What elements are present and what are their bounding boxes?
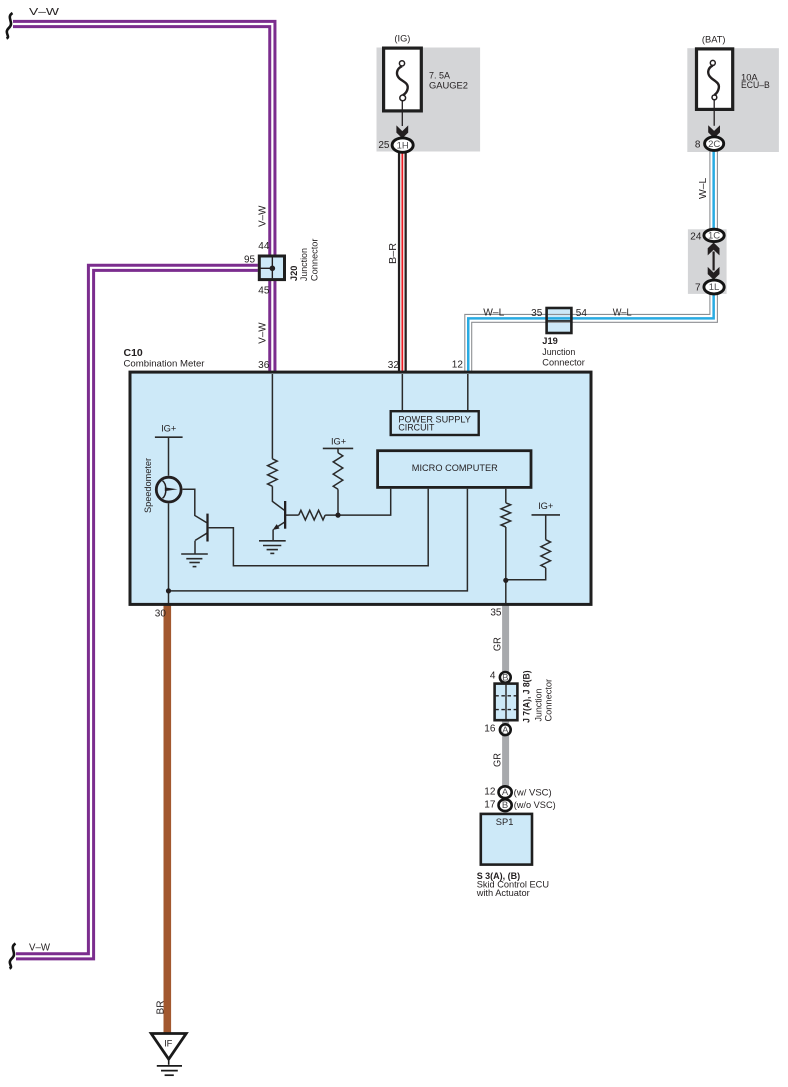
svg-text:Connector: Connector [544,679,554,722]
svg-text:with Actuator: with Actuator [476,888,530,898]
svg-text:1L: 1L [709,282,720,293]
svg-text:44: 44 [258,241,270,252]
svg-text:7: 7 [695,283,701,294]
svg-text:16: 16 [484,724,496,735]
svg-text:Junction: Junction [533,689,543,722]
svg-text:30: 30 [155,609,167,620]
svg-text:4: 4 [490,671,496,682]
svg-text:CIRCUIT: CIRCUIT [398,423,434,433]
svg-text:V–W: V–W [257,322,268,344]
svg-text:1H: 1H [397,140,409,151]
svg-text:IG+: IG+ [538,501,553,511]
svg-text:J19: J19 [542,336,558,346]
svg-text:B: B [502,673,508,684]
svg-text:8: 8 [695,139,701,150]
svg-text:GR: GR [492,637,503,651]
svg-text:32: 32 [388,360,400,371]
svg-text:35: 35 [531,308,543,319]
svg-text:45: 45 [258,286,270,297]
svg-text:IG+: IG+ [161,424,176,434]
svg-text:(BAT): (BAT) [702,35,726,45]
svg-text:Speedometer: Speedometer [143,458,153,513]
svg-text:2C: 2C [708,139,720,150]
svg-text:ECU–B: ECU–B [741,80,770,90]
svg-text:W–L: W–L [698,177,709,199]
svg-text:Combination Meter: Combination Meter [124,358,205,368]
svg-text:V–W: V–W [29,942,51,953]
svg-text:C10: C10 [124,347,143,359]
svg-text:1C: 1C [708,231,720,242]
svg-text:J20: J20 [289,266,299,282]
svg-text:A: A [502,725,509,736]
svg-text:IF: IF [164,1039,173,1049]
svg-text:IG+: IG+ [331,437,346,447]
svg-text:95: 95 [244,254,256,265]
svg-text:12: 12 [452,360,464,371]
svg-text:12: 12 [484,787,496,798]
svg-text:35: 35 [490,608,502,619]
svg-text:W–L: W–L [613,308,632,319]
svg-text:Junction: Junction [299,248,309,281]
svg-text:(w/ VSC): (w/ VSC) [514,787,552,797]
svg-text:GR: GR [492,753,503,767]
svg-text:25: 25 [378,140,390,151]
svg-text:MICRO COMPUTER: MICRO COMPUTER [412,463,498,473]
svg-text:(IG): (IG) [394,34,410,44]
svg-text:V–W: V–W [257,205,268,227]
svg-text:(w/o VSC): (w/o VSC) [514,800,556,810]
svg-text:SP1: SP1 [496,817,514,827]
svg-text:BR: BR [155,1001,166,1015]
svg-text:V–W: V–W [29,7,60,18]
svg-text:17: 17 [484,800,496,811]
svg-text:7. 5A: 7. 5A [429,71,451,81]
svg-text:24: 24 [690,232,702,243]
svg-text:J 7(A), J 8(B): J 7(A), J 8(B) [522,670,532,723]
svg-text:Connector: Connector [542,358,585,368]
svg-text:GAUGE2: GAUGE2 [429,80,468,90]
svg-text:Junction: Junction [542,347,575,357]
svg-text:36: 36 [258,360,270,371]
svg-text:54: 54 [576,308,588,319]
svg-text:Connector: Connector [309,239,319,282]
svg-text:B: B [502,800,508,811]
svg-text:W–L: W–L [483,308,504,319]
svg-text:A: A [502,787,509,798]
svg-text:B–R: B–R [388,243,399,264]
